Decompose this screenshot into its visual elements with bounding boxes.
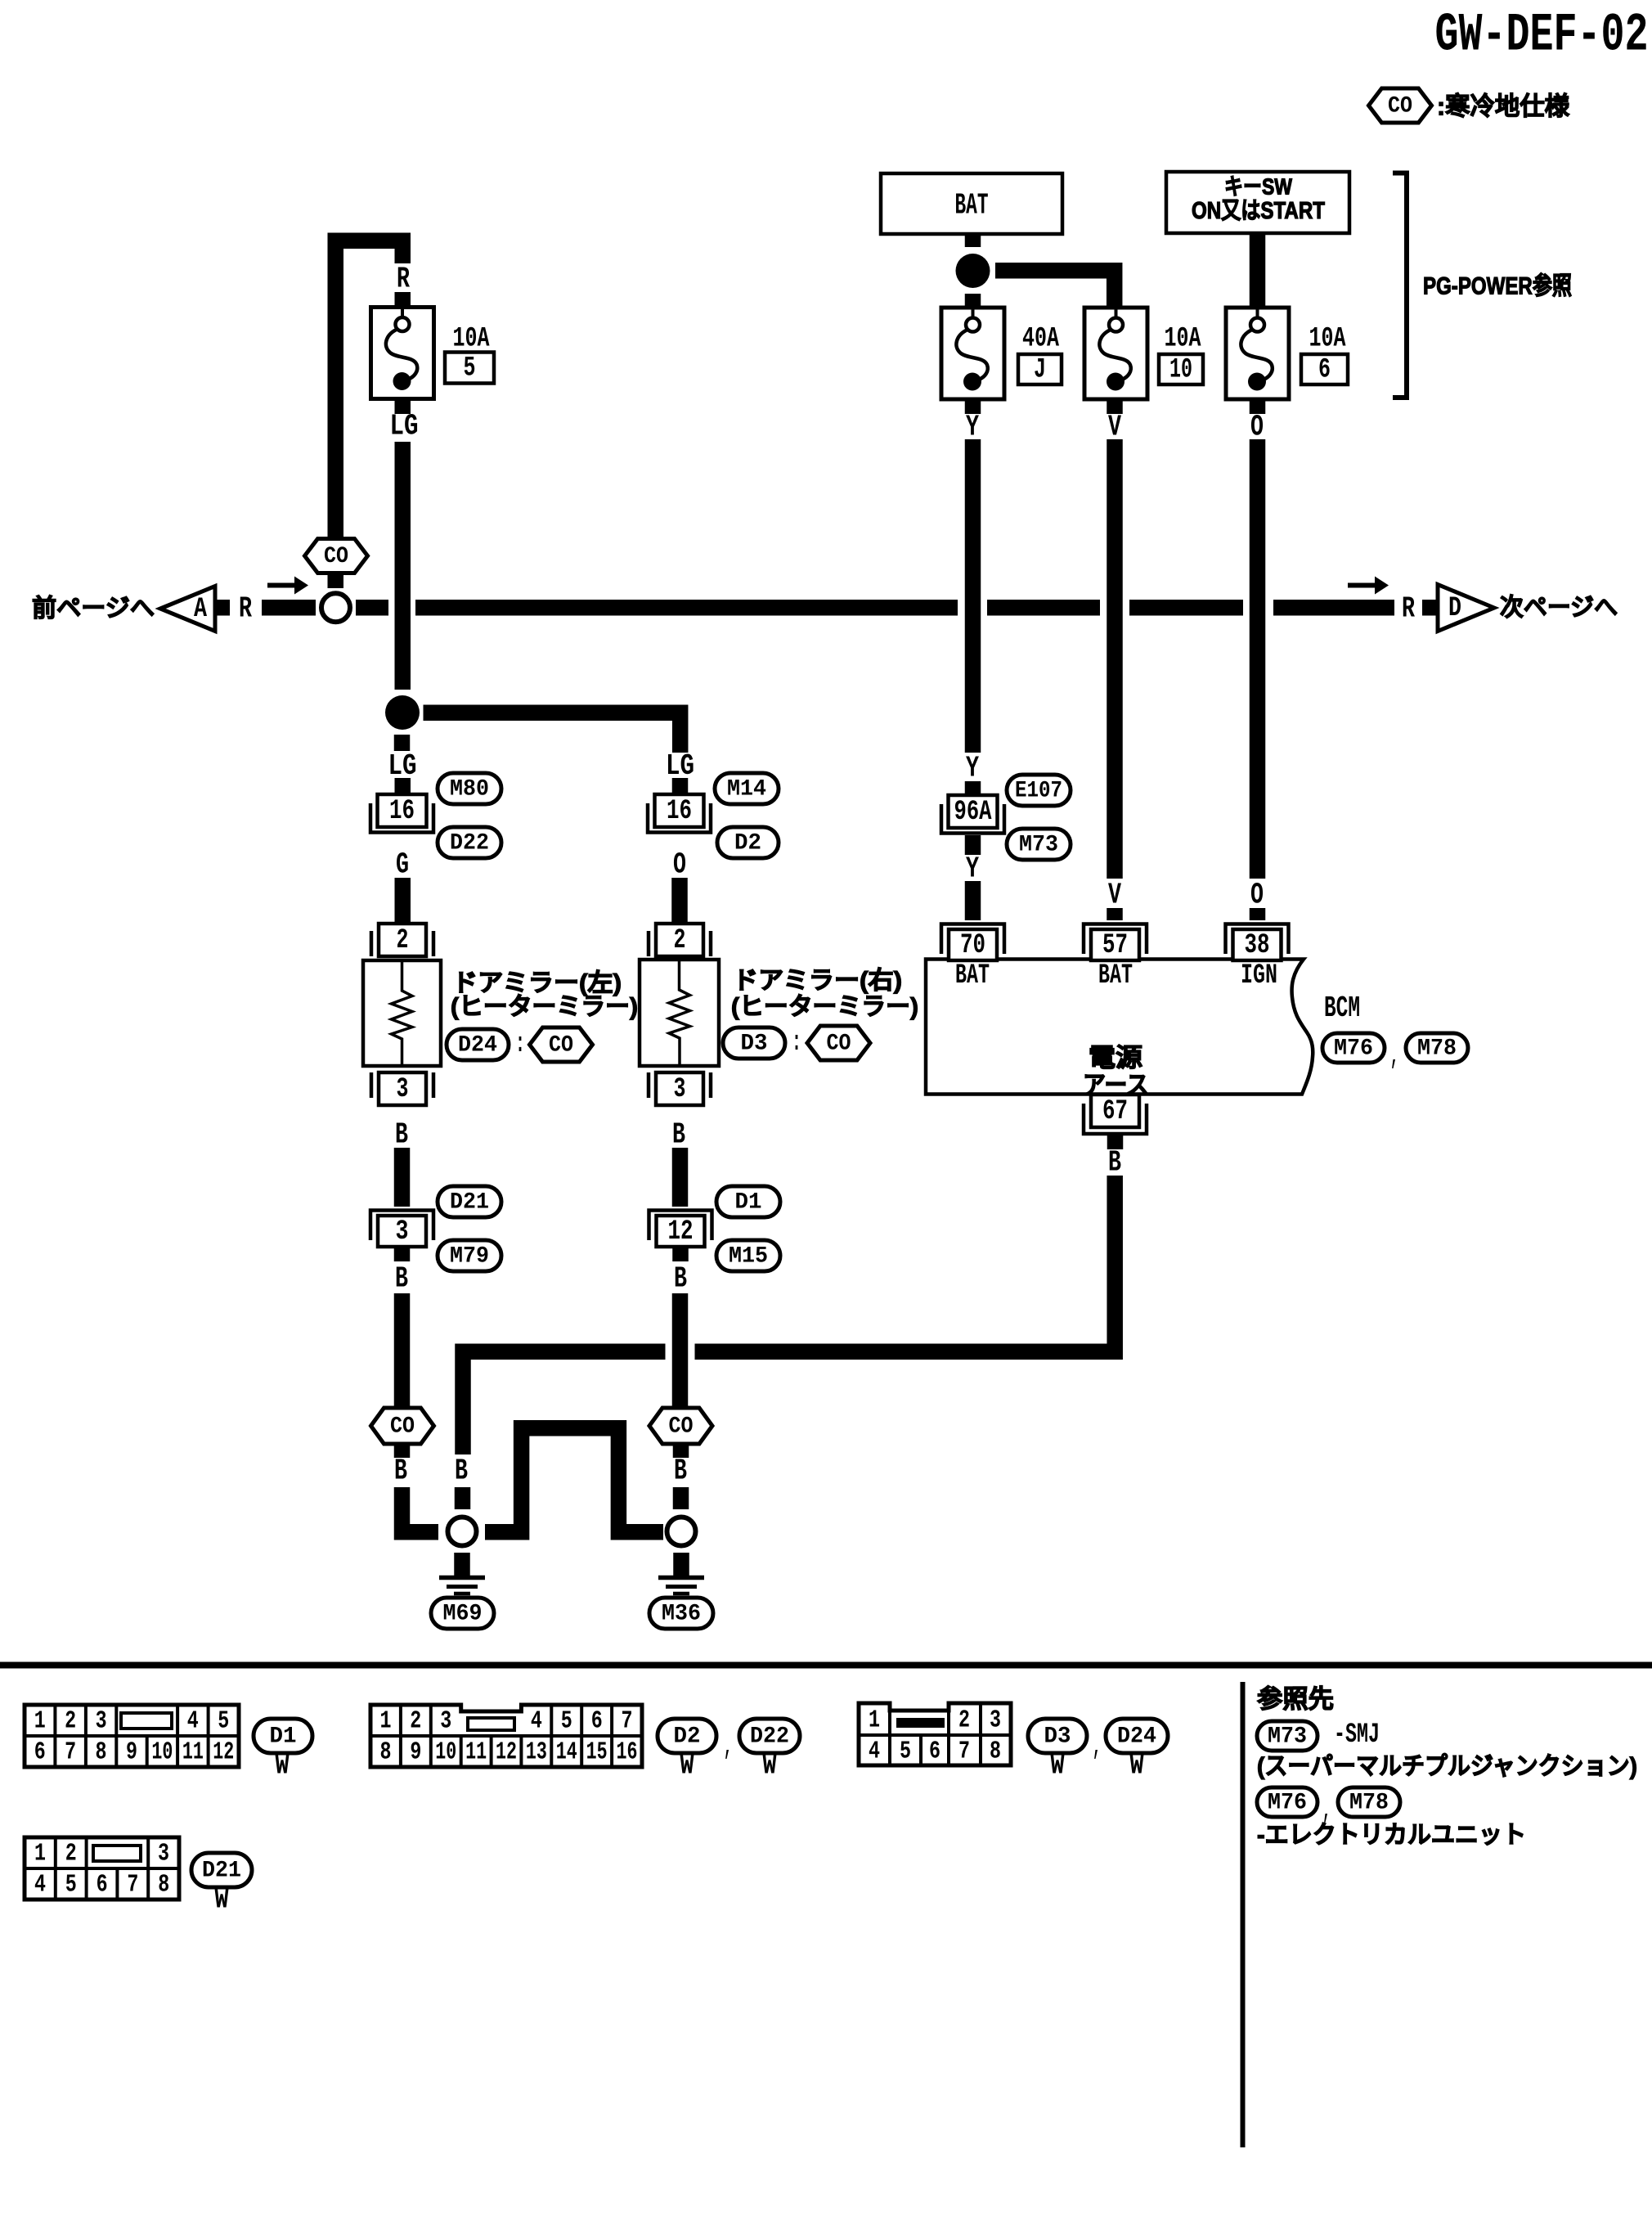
connector 16 (M80/D22)	[370, 794, 433, 833]
svg-text:M73: M73	[1019, 833, 1058, 858]
wire B to left ground junction top	[455, 1487, 471, 1509]
svg-text:11: 11	[465, 1738, 487, 1767]
fuse 10A 6	[1226, 308, 1289, 399]
svg-text:R: R	[397, 263, 410, 296]
svg-text:W: W	[763, 1751, 777, 1783]
svg-text:前ページへ: 前ページへ	[32, 596, 155, 623]
wire key switch to fuse 10A-6	[1250, 233, 1266, 308]
wire stub below fuse 5	[395, 399, 411, 414]
svg-text:5: 5	[900, 1738, 911, 1766]
svg-text:7: 7	[622, 1707, 633, 1736]
reference oval M76	[1257, 1787, 1318, 1817]
svg-text:13: 13	[526, 1738, 547, 1767]
svg-text:4: 4	[34, 1871, 46, 1900]
svg-text:R: R	[1402, 592, 1415, 626]
svg-text:B: B	[672, 1118, 685, 1152]
connector oval D2 bottom	[658, 1719, 716, 1753]
svg-text:5: 5	[561, 1707, 572, 1736]
door mirror RH box with heater resistor	[640, 960, 719, 1066]
svg-text:1: 1	[380, 1707, 392, 1736]
svg-text:G: G	[396, 848, 409, 882]
junction dot under BAT	[956, 254, 990, 288]
svg-text:電源: 電源	[1089, 1044, 1142, 1072]
svg-text:D24: D24	[458, 1033, 497, 1059]
svg-text:Y: Y	[966, 411, 979, 444]
svg-text:10: 10	[151, 1738, 173, 1767]
svg-text:2: 2	[958, 1706, 970, 1735]
svg-text:D1: D1	[270, 1724, 297, 1750]
svg-text:O: O	[1250, 879, 1264, 912]
svg-text:D1: D1	[735, 1190, 762, 1216]
connector oval M15	[716, 1240, 780, 1271]
ground symbol M36	[658, 1578, 704, 1594]
svg-text:B: B	[1108, 1146, 1121, 1180]
svg-text:2: 2	[674, 925, 686, 956]
svg-text:,: ,	[724, 1732, 732, 1763]
svg-text:(ヒーターミラー): (ヒーターミラー)	[451, 994, 638, 1021]
svg-text:M80: M80	[450, 777, 489, 803]
svg-text:CO: CO	[549, 1033, 573, 1059]
svg-text:10A: 10A	[1165, 324, 1201, 355]
wire CO hex to bus junction	[328, 573, 344, 589]
svg-text::: :	[792, 1027, 801, 1059]
hexagon CO on left drop	[305, 539, 368, 573]
wire stub to ground symbol left	[454, 1553, 470, 1576]
connector oval D1	[716, 1186, 780, 1217]
svg-text:1: 1	[34, 1840, 46, 1868]
svg-text:M36: M36	[662, 1602, 701, 1627]
ground junction right	[667, 1517, 696, 1546]
svg-text:W: W	[1130, 1751, 1144, 1783]
svg-text:IGN: IGN	[1241, 960, 1277, 991]
svg-text:CO: CO	[827, 1032, 851, 1057]
svg-text:8: 8	[990, 1738, 1001, 1766]
svg-text:7: 7	[65, 1738, 76, 1767]
connector pin 3 door mirror LH	[371, 1072, 433, 1105]
svg-text:LG: LG	[388, 749, 417, 783]
svg-text:(ヒーターミラー): (ヒーターミラー)	[731, 994, 918, 1021]
connector face D21 grid	[25, 1837, 179, 1900]
wire Y long down	[965, 439, 981, 753]
svg-text:8: 8	[158, 1871, 169, 1900]
wire bus R right segment	[1273, 600, 1394, 616]
wire stub below fuse 6	[1250, 399, 1266, 414]
svg-text:10: 10	[1169, 355, 1192, 386]
BCM pin 70 connector	[941, 924, 1004, 962]
wire stub below fuse J	[965, 399, 981, 414]
svg-text:CO: CO	[669, 1414, 694, 1440]
wire stub triangle A	[215, 600, 230, 616]
wire stub below 67	[1107, 1135, 1124, 1149]
svg-text:V: V	[1108, 411, 1121, 444]
wire O to door mirror RH	[671, 878, 688, 924]
connector oval D3 bottom	[1028, 1719, 1087, 1753]
wire B from BCM down and left	[695, 1176, 1116, 1351]
svg-text:7: 7	[958, 1738, 970, 1766]
hexagon CO door mirror RH	[807, 1026, 870, 1060]
wire dash below dot	[394, 735, 411, 751]
svg-text:D22: D22	[750, 1724, 789, 1750]
svg-text:3: 3	[397, 1074, 409, 1105]
connector oval D22 bottom	[739, 1719, 800, 1753]
svg-text:CO: CO	[1388, 94, 1412, 119]
svg-text:5: 5	[218, 1707, 229, 1736]
svg-text:1: 1	[34, 1707, 46, 1736]
connector triangle A (to previous page)	[160, 587, 215, 632]
connector triangle D (to next page)	[1438, 585, 1494, 632]
svg-text:ドアミラー(右): ドアミラー(右)	[733, 968, 902, 995]
svg-text:Y: Y	[966, 752, 979, 785]
wire stub below CO right	[673, 1444, 689, 1458]
wire R to fuse	[395, 292, 411, 308]
wire mirror RH down through crossing	[672, 1148, 689, 1207]
svg-text:CO: CO	[324, 544, 348, 569]
svg-text:5: 5	[65, 1871, 77, 1900]
svg-text:3: 3	[158, 1840, 169, 1868]
svg-text:M76: M76	[1268, 1791, 1307, 1816]
svg-text:D22: D22	[450, 831, 489, 856]
wire Y to BCM pin 70	[965, 881, 981, 920]
bracket PG-POWER	[1393, 173, 1407, 398]
wire B to left ground junction	[402, 1487, 439, 1532]
wire V to BCM pin 57	[1107, 908, 1123, 920]
node branch dot	[385, 695, 420, 730]
svg-text:5: 5	[464, 353, 476, 384]
svg-text:LG: LG	[390, 410, 419, 443]
wire top-left L shape	[335, 241, 402, 538]
svg-text:W: W	[680, 1751, 694, 1783]
connector oval D24 bottom	[1106, 1719, 1168, 1753]
ground oval M69	[431, 1598, 494, 1629]
svg-text:16: 16	[389, 796, 415, 827]
svg-text:12: 12	[213, 1738, 234, 1767]
connector pin 2 door mirror RH	[649, 924, 711, 956]
svg-text:D21: D21	[202, 1859, 241, 1884]
svg-text:BAT: BAT	[1098, 960, 1133, 991]
svg-text:6: 6	[929, 1738, 940, 1766]
svg-text:D3: D3	[1044, 1724, 1071, 1750]
power box BAT	[881, 173, 1062, 234]
svg-text:M79: M79	[450, 1244, 489, 1270]
svg-text:B: B	[395, 1262, 408, 1296]
svg-text:40A: 40A	[1022, 324, 1059, 355]
hexagon CO door mirror LH	[530, 1027, 593, 1062]
svg-text:,: ,	[1390, 1041, 1398, 1072]
connector oval M78	[1406, 1033, 1468, 1063]
legend CO hexagon	[1369, 88, 1432, 123]
BCM pin 57 connector	[1084, 924, 1147, 962]
svg-text:B: B	[514, 1454, 527, 1488]
svg-text:16: 16	[667, 796, 692, 827]
connector oval M73	[1007, 829, 1071, 860]
fuse number box 10	[1159, 354, 1203, 384]
svg-text:,: ,	[1093, 1732, 1101, 1763]
svg-text:2: 2	[410, 1707, 421, 1736]
svg-text:B: B	[674, 1454, 687, 1488]
svg-text:M73: M73	[1268, 1724, 1307, 1750]
svg-text:D2: D2	[734, 831, 761, 856]
wire branch dot to right mirror column	[424, 713, 680, 753]
wire stub to ground symbol right	[673, 1553, 689, 1576]
svg-text:8: 8	[96, 1738, 107, 1767]
svg-text:M78: M78	[1417, 1036, 1457, 1062]
arrow right-direction right	[1348, 577, 1389, 595]
svg-text:D21: D21	[450, 1190, 489, 1216]
svg-text:D3: D3	[741, 1032, 768, 1057]
svg-text:参照先: 参照先	[1257, 1685, 1334, 1714]
svg-text:D2: D2	[674, 1724, 701, 1750]
connector 12 (D1/M15)	[649, 1211, 712, 1248]
wire V long down	[1107, 439, 1123, 879]
svg-text:16: 16	[616, 1738, 637, 1767]
svg-text:15: 15	[586, 1738, 608, 1767]
fuse number box J	[1018, 354, 1062, 384]
svg-text:6: 6	[34, 1738, 46, 1767]
svg-text:10A: 10A	[453, 324, 490, 355]
svg-text:6: 6	[1318, 355, 1331, 386]
svg-text:7: 7	[127, 1871, 138, 1900]
connector oval D1 bottom	[254, 1719, 312, 1753]
BCM pin 38 connector	[1226, 924, 1289, 962]
svg-text:M15: M15	[729, 1244, 768, 1270]
svg-text:14: 14	[556, 1738, 577, 1767]
connector face D3/D24 grid	[859, 1703, 1011, 1766]
svg-text:J: J	[1034, 355, 1046, 386]
svg-text:R: R	[239, 592, 252, 626]
svg-text:-エレクトリカルユニット: -エレクトリカルユニット	[1257, 1822, 1526, 1849]
wire bus R center segment	[415, 600, 958, 616]
wire Y to connector 96A	[965, 781, 981, 795]
wire stub below connector 12	[672, 1248, 689, 1261]
svg-text:V: V	[1108, 879, 1121, 912]
wire mirror LH to connector 3	[394, 1148, 411, 1207]
connector face D2/D22 grid	[370, 1705, 642, 1767]
connector 96A (E107/M73)	[941, 795, 1004, 834]
svg-text:38: 38	[1245, 930, 1270, 961]
svg-text:10: 10	[435, 1738, 456, 1767]
connector oval D21 bottom	[191, 1853, 252, 1887]
svg-text:O: O	[673, 848, 686, 882]
svg-text:8: 8	[380, 1738, 392, 1767]
svg-text::: :	[515, 1029, 525, 1060]
svg-text:B: B	[395, 1118, 408, 1152]
svg-text:11: 11	[182, 1738, 204, 1767]
connector oval M14	[715, 773, 779, 804]
svg-text:M78: M78	[1349, 1791, 1389, 1816]
connector oval D21	[438, 1186, 501, 1217]
connector oval D2	[717, 827, 779, 858]
connector 3 (D21/M79)	[370, 1211, 433, 1248]
connector oval E107	[1007, 775, 1071, 806]
wire O long down	[1250, 439, 1266, 879]
wire 96A down	[965, 835, 981, 855]
svg-text:2: 2	[65, 1840, 77, 1868]
svg-text:3: 3	[96, 1707, 107, 1736]
svg-text:ON又はSTART: ON又はSTART	[1192, 198, 1325, 224]
svg-text:M14: M14	[727, 777, 766, 803]
svg-text:次ページへ: 次ページへ	[1500, 595, 1618, 622]
svg-text:B: B	[612, 1454, 625, 1488]
svg-text:1: 1	[869, 1706, 880, 1735]
svg-text:4: 4	[531, 1707, 542, 1736]
svg-text:6: 6	[591, 1707, 603, 1736]
wire B horizontal left part	[463, 1351, 666, 1454]
svg-text:W: W	[215, 1886, 229, 1917]
svg-text:9: 9	[126, 1738, 137, 1767]
wire stub triangle D	[1422, 600, 1437, 616]
connector oval D22	[438, 827, 501, 858]
svg-text:3: 3	[674, 1074, 686, 1105]
fuse number box 6	[1301, 354, 1348, 384]
node bus junction circle	[321, 593, 350, 622]
svg-text::寒冷地仕様: :寒冷地仕様	[1437, 92, 1570, 121]
wire stub below connector 3	[394, 1248, 411, 1261]
svg-text:B: B	[674, 1262, 687, 1296]
BCM box with torn right edge	[926, 960, 1313, 1095]
svg-text:E107: E107	[1015, 779, 1062, 804]
svg-text:BCM: BCM	[1324, 991, 1360, 1025]
reference oval M78	[1338, 1787, 1400, 1817]
svg-text:Y: Y	[966, 852, 979, 886]
wire bus R left segments	[262, 600, 316, 616]
divider horizontal	[0, 1662, 1652, 1669]
svg-text:9: 9	[410, 1738, 421, 1767]
fuse 40A J	[941, 308, 1004, 399]
divider vertical	[1241, 1682, 1246, 2147]
svg-text:6: 6	[97, 1871, 108, 1900]
power box key switch ON/START	[1166, 172, 1349, 233]
svg-text:12: 12	[496, 1738, 517, 1767]
svg-text:LG: LG	[666, 749, 694, 783]
connector oval M76	[1322, 1033, 1385, 1063]
wire G to door mirror LH	[395, 878, 411, 924]
svg-text:O: O	[1250, 411, 1264, 444]
wire junction right and down to fuse 10A-10	[995, 271, 1115, 308]
svg-text:4: 4	[869, 1738, 880, 1766]
BCM pin 67 connector	[1084, 1095, 1147, 1134]
hexagon CO right ground branch	[649, 1408, 712, 1444]
fuse number box 5	[445, 353, 494, 384]
connector pin 2 door mirror LH	[371, 924, 433, 956]
connector face D1 grid	[25, 1705, 239, 1767]
connector oval M80	[438, 773, 501, 804]
wire LG to connector 16 right	[672, 778, 689, 794]
arrow right-direction left	[267, 577, 308, 595]
svg-text:96A: 96A	[954, 797, 992, 828]
svg-text:3: 3	[990, 1706, 1001, 1735]
svg-text:67: 67	[1102, 1096, 1128, 1127]
wire stub below fuse 10	[1107, 399, 1123, 414]
ground oval M36	[649, 1598, 713, 1629]
connector 16 (M14/D2)	[648, 794, 711, 833]
ground symbol M69	[439, 1578, 485, 1594]
svg-text:2: 2	[65, 1707, 76, 1736]
wire junction to fuse 40A (dash)	[965, 294, 981, 308]
svg-text:10A: 10A	[1309, 324, 1346, 355]
wire B to right ground junction	[673, 1487, 689, 1509]
wire LG to connector 16	[395, 778, 411, 794]
svg-text:GW-DEF-02: GW-DEF-02	[1435, 5, 1649, 66]
door mirror LH box with heater resistor	[363, 960, 441, 1066]
svg-text:70: 70	[960, 930, 985, 961]
wire stub below CO left	[394, 1444, 411, 1458]
ground junction left	[448, 1517, 477, 1546]
svg-text:B: B	[455, 1454, 468, 1488]
wire bridge between grounds	[485, 1428, 663, 1532]
connector pin 3 door mirror RH	[649, 1072, 711, 1105]
svg-text:D: D	[1448, 593, 1461, 624]
svg-text:W: W	[1051, 1751, 1065, 1783]
svg-text:2: 2	[397, 925, 409, 956]
fuse 10A 10	[1084, 308, 1147, 399]
svg-text:3: 3	[440, 1707, 451, 1736]
svg-text:W: W	[276, 1751, 290, 1783]
svg-text:キーSW: キーSW	[1224, 174, 1292, 200]
svg-text:12: 12	[668, 1216, 694, 1248]
svg-text:4: 4	[187, 1707, 199, 1736]
connector oval D3	[723, 1027, 785, 1059]
svg-text:(スーパーマルチプルジャンクション): (スーパーマルチプルジャンクション)	[1257, 1753, 1637, 1780]
svg-text:B: B	[394, 1454, 407, 1488]
svg-text:A: A	[194, 594, 207, 625]
svg-text:BAT: BAT	[955, 960, 990, 991]
svg-text:BAT: BAT	[955, 189, 989, 223]
fuse 10A 5	[371, 308, 434, 399]
connector oval D24	[447, 1029, 509, 1060]
svg-text:M69: M69	[443, 1602, 483, 1627]
wire B down crossing horizontal B wire	[672, 1293, 689, 1407]
svg-text:M76: M76	[1334, 1036, 1373, 1062]
wire B down to CO hex left	[394, 1293, 411, 1407]
svg-text:D24: D24	[1117, 1724, 1156, 1750]
connector oval M79	[438, 1240, 501, 1271]
wire BAT to junction	[965, 234, 981, 247]
svg-text:57: 57	[1102, 930, 1128, 961]
svg-text:CO: CO	[390, 1414, 415, 1440]
wire fuse down through bus to junction dot	[395, 442, 411, 690]
svg-text:PG-POWER参照: PG-POWER参照	[1423, 273, 1572, 300]
svg-text:3: 3	[396, 1216, 409, 1248]
reference oval M73	[1257, 1721, 1318, 1751]
svg-text:-SMJ: -SMJ	[1334, 1720, 1380, 1751]
wire O to BCM pin 38	[1250, 908, 1266, 920]
hexagon CO left ground branch	[371, 1408, 434, 1444]
